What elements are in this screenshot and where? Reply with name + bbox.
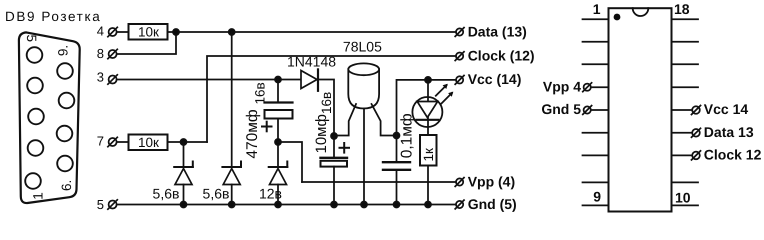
svg-text:Vpp (4): Vpp (4) — [468, 173, 515, 189]
svg-text:4: 4 — [97, 24, 104, 39]
svg-text:DB9 Розетка: DB9 Розетка — [5, 9, 101, 24]
svg-text:1к: 1к — [421, 148, 436, 162]
U1 ground lead — [363, 109, 365, 205]
svg-text:Gnd 5: Gnd 5 — [541, 101, 581, 117]
wire R2 to clock riser — [168, 141, 208, 143]
svg-text:9.: 9. — [56, 45, 71, 56]
value 10мф 16в — [313, 92, 334, 154]
IC pin 1 stub — [583, 18, 609, 20]
DB9 hole pin8 — [59, 93, 75, 109]
DB9 hole pin5 — [27, 47, 43, 63]
IC pin 13 stub Data — [672, 128, 701, 137]
zener VD1 5,6в — [174, 142, 193, 205]
svg-text:12в: 12в — [259, 186, 282, 202]
node gnd C3 — [394, 202, 400, 208]
zener VD3 12в — [269, 162, 288, 205]
regulator U1 78L05 body — [348, 63, 379, 108]
DB9 hole pin2 — [28, 140, 44, 156]
IC DIP-18 body — [609, 8, 672, 211]
DB9 hole pin9 — [57, 63, 73, 79]
U1 output lead — [372, 104, 397, 136]
wire Gnd rail — [117, 204, 456, 206]
pin 8 terminal — [108, 49, 117, 58]
svg-text:Gnd (5): Gnd (5) — [468, 196, 517, 212]
wire pin4 to R1 — [117, 31, 129, 33]
svg-text:10мф: 10мф — [313, 114, 330, 153]
IC pin 10 stub — [672, 204, 699, 206]
IC pin 18 stub — [672, 18, 699, 20]
node pin8/Data junction — [173, 29, 179, 35]
node regulator output junction — [394, 133, 400, 139]
terminal Vpp (4) — [455, 178, 464, 187]
capacitor C2 10мф 16в — [321, 136, 350, 205]
DB9 hole pin4 — [27, 78, 43, 94]
svg-text:0,1мф: 0,1мф — [399, 113, 416, 158]
IC pin 12 stub Clock — [672, 151, 701, 160]
svg-text:16в: 16в — [319, 92, 334, 114]
node gnd VD2 — [229, 202, 235, 208]
IC pin 8 stub — [583, 181, 609, 183]
node gnd VD1 — [181, 202, 187, 208]
IC pin 14 stub Vcc — [672, 106, 701, 115]
node gnd R3 — [425, 202, 431, 208]
node regulator input junction — [331, 133, 337, 139]
wire pin8 — [117, 32, 176, 54]
resistor R2 10к — [129, 135, 168, 151]
svg-text:5,6в: 5,6в — [203, 186, 230, 202]
terminal Data (13) — [455, 28, 464, 37]
IC pin 17 stub — [672, 41, 699, 43]
svg-text:16в: 16в — [253, 82, 268, 104]
IC pin 11 stub — [672, 181, 699, 183]
svg-text:7: 7 — [97, 134, 104, 149]
svg-text:9: 9 — [593, 189, 601, 205]
svg-text:Clock (12): Clock (12) — [468, 48, 535, 64]
capacitor C3 0,1мф — [383, 136, 410, 205]
svg-text:1: 1 — [31, 192, 46, 200]
pin 5 terminal — [108, 200, 117, 209]
svg-text:1N4148: 1N4148 — [287, 54, 336, 70]
svg-text:18: 18 — [674, 1, 690, 17]
node pin3/C1 junction — [275, 77, 281, 83]
node gnd C2 — [331, 202, 337, 208]
node gnd U1 — [361, 202, 367, 208]
pin 4 terminal — [108, 27, 117, 36]
IC pin 7 stub — [583, 154, 609, 156]
svg-text:470мф: 470мф — [244, 109, 261, 159]
IC pin 5 stub Gnd — [583, 106, 609, 115]
wire pin3 — [117, 79, 301, 81]
node zener VD1 top junction — [181, 139, 187, 145]
svg-text:Vcc 14: Vcc 14 — [704, 101, 749, 117]
svg-text:8: 8 — [97, 46, 104, 61]
svg-text:3: 3 — [97, 70, 104, 85]
svg-text:10: 10 — [675, 190, 691, 206]
node LED branch junction — [425, 77, 431, 83]
wire Clock line — [207, 56, 456, 142]
svg-text:Vpp 4: Vpp 4 — [543, 79, 581, 95]
terminal Vcc (14) — [455, 76, 464, 85]
wire Data line — [168, 31, 456, 33]
capacitor C1 470мф 16в — [262, 80, 293, 168]
wire Vcc line — [397, 80, 456, 136]
svg-text:5: 5 — [24, 34, 39, 42]
resistor R3 1к — [420, 135, 437, 205]
wire C1 junction to Vpp rail — [278, 142, 302, 182]
IC pin 2 stub — [583, 41, 609, 43]
diode VD4 1N4148 — [301, 69, 318, 90]
wire diode cathode to regulator input — [319, 80, 334, 137]
node C1 bottom junction — [275, 139, 281, 145]
node gnd VD3 — [275, 202, 281, 208]
pin 3 terminal — [108, 75, 117, 84]
zener VD2 5,6в — [222, 32, 241, 205]
svg-text:Data (13): Data (13) — [468, 23, 527, 39]
DB9 hole pin1 — [25, 173, 41, 189]
node Data/zener junction — [229, 29, 235, 35]
DB9 hole pin7 — [57, 126, 73, 142]
svg-text:78L05: 78L05 — [343, 39, 382, 55]
svg-text:10к: 10к — [138, 135, 159, 150]
IC pin 9 stub — [583, 204, 609, 206]
DB9 hole pin6 — [57, 156, 73, 172]
pin 7 terminal — [108, 137, 117, 146]
svg-text:Vcc (14): Vcc (14) — [468, 71, 522, 87]
IC pin 15 stub — [672, 86, 699, 88]
U1 input lead — [334, 104, 356, 136]
IC pin 16 stub — [672, 63, 699, 65]
LED HL1 — [412, 80, 453, 135]
svg-text:1: 1 — [593, 1, 601, 17]
terminal Gnd (5) — [455, 200, 464, 209]
IC pin 6 stub — [583, 132, 609, 134]
wire Vpp rail — [302, 181, 456, 183]
DB9 hole pin3 — [28, 109, 44, 125]
resistor R1 10к — [129, 24, 168, 40]
svg-text:10к: 10к — [138, 25, 159, 40]
value 470мф 16в — [244, 82, 268, 158]
svg-text:5,6в: 5,6в — [153, 186, 180, 202]
svg-text:Clock 12: Clock 12 — [704, 147, 762, 163]
terminal Clock (12) — [455, 52, 464, 61]
IC pin 3 stub — [583, 63, 609, 65]
svg-text:5: 5 — [97, 197, 104, 212]
IC pin 4 stub Vpp — [583, 83, 609, 92]
wire pin7 to R2 — [117, 141, 129, 143]
svg-text:Data 13: Data 13 — [704, 124, 754, 140]
DB9 connector outline — [19, 32, 80, 203]
svg-text:6.: 6. — [59, 180, 74, 191]
